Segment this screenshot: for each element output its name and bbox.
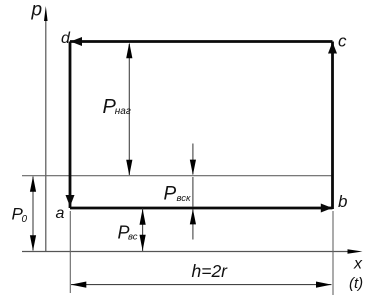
extension line below a — [69, 211, 71, 293]
p axis (y-axis) — [45, 18, 47, 252]
svg-text:c: c — [338, 32, 347, 51]
dimension P_vsk upper shaft (outside arrow, pointing down) — [192, 144, 194, 175]
x axis arrowhead — [348, 249, 363, 254]
svg-text:d: d — [61, 30, 71, 47]
dimension P_nag top arrowhead — [126, 43, 132, 59]
dimension P_0 top arrowhead — [30, 176, 36, 192]
p axis arrowhead — [44, 6, 48, 21]
node p0 line (suction reference level) — [22, 175, 333, 177]
svg-text:0: 0 — [22, 214, 28, 225]
dimension P_nag shaft — [128, 44, 130, 175]
svg-text:(t): (t) — [349, 275, 363, 292]
dimension P_vs shaft — [142, 209, 144, 252]
svg-text:вск: вск — [177, 193, 192, 204]
dimension h=2r right arrowhead — [316, 282, 332, 288]
dimension P_nag bottom arrowhead — [126, 160, 132, 176]
svg-text:вс: вс — [128, 232, 138, 243]
arrow at d (pointing left) — [71, 37, 83, 46]
svg-text:p: p — [31, 0, 43, 21]
svg-text:h=2r: h=2r — [192, 261, 229, 281]
wire d-a (thick left) — [69, 42, 72, 209]
dimension P_vs bottom arrowhead — [140, 235, 146, 251]
arrow at b (pointing right) — [321, 204, 333, 213]
svg-text:наг: наг — [115, 106, 131, 117]
x axis — [22, 251, 350, 253]
dimension h=2r left arrowhead — [71, 282, 87, 288]
arrow at a (pointing down) — [66, 195, 75, 207]
svg-text:a: a — [56, 205, 65, 222]
wire a-b (suction line, thick bottom) — [70, 207, 333, 210]
dimension P_vsk middle connector — [192, 177, 194, 207]
arrow at c (pointing up) — [328, 42, 337, 54]
wire d-c (discharge line, thick top) — [70, 40, 333, 43]
dimension P_0 bottom arrowhead — [30, 235, 36, 251]
dimension P_vs top arrowhead — [140, 209, 146, 225]
dimension P_0 shaft — [32, 177, 34, 251]
svg-text:b: b — [338, 192, 347, 211]
extension line below b — [332, 211, 334, 295]
dimension P_vsk lower shaft (outside arrow, pointing up) — [192, 210, 194, 240]
wire b-c (thick right) — [331, 42, 334, 210]
svg-text:P: P — [164, 184, 177, 205]
dimension h=2r shaft — [71, 284, 332, 286]
svg-text:x: x — [353, 256, 363, 273]
